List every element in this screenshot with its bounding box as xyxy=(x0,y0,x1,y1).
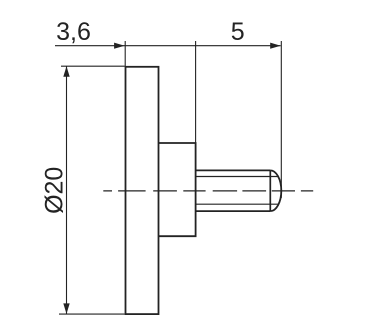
arrow down (Ø20) xyxy=(63,303,69,314)
disc body (front flange, side view) xyxy=(126,67,159,314)
stud dome end line xyxy=(269,170,271,211)
stud dome arc xyxy=(270,170,281,211)
top dimension line xyxy=(55,45,281,47)
extension line disc left xyxy=(124,41,126,67)
extension line disc top xyxy=(61,65,125,67)
arrow at stud tip (5) xyxy=(270,43,281,49)
extension line stud tip xyxy=(280,41,282,198)
hub boss behind disc xyxy=(159,143,196,236)
center line (dash-dot axis) xyxy=(103,190,313,192)
arrow up (Ø20) xyxy=(63,66,69,77)
svg-text:3,6: 3,6 xyxy=(56,18,91,46)
extension line disc bottom xyxy=(59,313,125,315)
svg-text:Ø20: Ø20 xyxy=(41,167,69,214)
thread root lines xyxy=(196,177,279,205)
svg-text:5: 5 xyxy=(231,18,245,46)
threaded stud outer profile xyxy=(196,170,271,211)
diameter dimension line xyxy=(66,67,68,314)
extension line hub face xyxy=(195,41,197,143)
arrow at disc face (3,6) xyxy=(114,43,125,49)
